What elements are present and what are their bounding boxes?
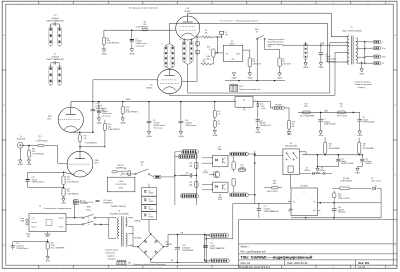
svg-text:ЧУЛ-4: ЧУЛ-4 <box>119 188 123 190</box>
svg-text:1.2к: 1.2к <box>67 179 70 181</box>
svg-text:к корпусу: к корпусу <box>358 87 365 89</box>
svg-text:Нейтр.: Нейтр. <box>59 226 64 229</box>
svg-text:GBU406: GBU406 <box>166 244 172 246</box>
svg-text:GNDЗ: GNDЗ <box>45 261 50 263</box>
svg-text:R6: R6 <box>107 38 109 40</box>
svg-text:C21: C21 <box>210 243 213 245</box>
svg-text:Радиатор источника тока: Радиатор источника тока <box>239 89 260 91</box>
svg-text:*1.5Вт MPR5012: *1.5Вт MPR5012 <box>67 181 79 183</box>
svg-text:3: 3 <box>95 215 96 217</box>
svg-text:*1.5Вт MPR24TЗ: *1.5Вт MPR24TЗ <box>107 42 120 44</box>
svg-text:12В: 12В <box>180 232 184 234</box>
svg-text:5к1: 5к1 <box>292 124 295 126</box>
svg-text:~220В: ~220В <box>20 221 25 223</box>
svg-text:1N4148: 1N4148 <box>319 170 324 172</box>
svg-text:C18: C18 <box>338 207 341 209</box>
svg-text:синяя: синяя <box>261 108 265 110</box>
svg-text:*500В Vishay/ВС: *500В Vishay/ВС <box>363 122 376 124</box>
svg-text:Q1: Q1 <box>204 170 206 172</box>
svg-text:8: 8 <box>304 192 305 194</box>
svg-text:КР142ЕН: КР142ЕН <box>275 105 281 107</box>
svg-text:File: LastChanges.sch: File: LastChanges.sch <box>241 250 267 254</box>
svg-text:Вход RCA: Вход RCA <box>17 137 26 140</box>
svg-text:11: 11 <box>367 267 369 269</box>
svg-text:Title: OddWatt — модифицирован: Title: OddWatt — модифицированный <box>241 255 313 259</box>
svg-text:4.3Вт КСОН: 4.3Вт КСОН <box>282 63 290 65</box>
svg-text:Date: 2019-03-30: Date: 2019-03-30 <box>287 261 308 265</box>
svg-text:5: 5 <box>229 156 230 158</box>
svg-text:КК2: КК2 <box>128 263 131 265</box>
svg-text:GNDA: GNDA <box>247 76 253 79</box>
svg-text:2N5401: 2N5401 <box>203 172 208 174</box>
svg-text:CP1: CP1 <box>189 163 192 165</box>
svg-text:SSB PP PANASONIC: SSB PP PANASONIC <box>46 20 65 23</box>
svg-text:10: 10 <box>332 267 334 269</box>
svg-text:T1: T1 <box>350 26 352 28</box>
svg-text:LED с выключ.: LED с выключ. <box>371 181 382 183</box>
svg-text:630В МУ SOLEN: 630В МУ SOLEN <box>341 163 354 165</box>
svg-text:R21: R21 <box>39 136 42 138</box>
svg-text:240В: 240В <box>126 99 131 101</box>
svg-text:ТКД MPR5012: ТКД MPR5012 <box>116 168 126 170</box>
svg-text:8: 8 <box>264 3 265 5</box>
svg-text:35В КМУ 50,16: 35В КМУ 50,16 <box>260 125 271 127</box>
svg-text:C2: C2 <box>54 15 57 17</box>
svg-text:Neutral: Neutral <box>32 226 38 229</box>
svg-text:C1: C1 <box>54 54 57 56</box>
svg-text:2: 2 <box>211 188 212 190</box>
svg-text:2.2к: 2.2к <box>218 114 221 116</box>
svg-text:ВХ: ВХ <box>226 53 228 55</box>
svg-text:0.25Вт LY КСОН: 0.25Вт LY КСОН <box>338 198 349 200</box>
svg-text:GNDN: GNDN <box>355 172 361 174</box>
svg-text:Sheet: /: Sheet: / <box>241 244 250 248</box>
svg-text:GNDN: GNDN <box>318 135 324 137</box>
svg-text:320В: 320В <box>324 110 329 112</box>
svg-text:V1A: V1A <box>95 159 99 162</box>
svg-text:Cross Z-cap: Cross Z-cap <box>153 126 162 129</box>
svg-text:*Элементы времени: *Элементы времени <box>355 81 371 83</box>
svg-text:9: 9 <box>298 3 299 5</box>
svg-text:1к: 1к <box>179 39 181 41</box>
svg-text:C19: C19 <box>16 243 19 245</box>
svg-text:V3: V3 <box>186 8 189 10</box>
svg-text:R10: R10 <box>203 60 206 62</box>
svg-text:ЗЩ: ЗЩ <box>27 236 30 238</box>
svg-text:C12: C12 <box>365 159 368 161</box>
svg-text:R25: R25 <box>67 189 70 191</box>
svg-text:R24: R24 <box>67 177 70 179</box>
svg-text:Корпус: Корпус <box>26 234 31 236</box>
svg-text:R27 10к: R27 10к <box>80 200 86 202</box>
svg-text:Вся проводка высокого напряжен: Вся проводка высокого напряжения <box>129 7 158 9</box>
svg-text:1к1: 1к1 <box>329 146 332 148</box>
svg-text:UF5407: UF5407 <box>149 209 154 211</box>
svg-text:D2: D2 <box>306 168 308 170</box>
svg-text:SW3: SW3 <box>87 207 91 209</box>
svg-text:*16В Elna Silmic II: *16В Elna Silmic II <box>32 182 46 184</box>
svg-text:UF5407: UF5407 <box>149 216 154 218</box>
svg-text:Rev: 001: Rev: 001 <box>359 261 370 265</box>
svg-text:9: 9 <box>129 232 130 234</box>
svg-text:1: 1 <box>22 3 23 5</box>
svg-text:D6: D6 <box>149 191 151 193</box>
svg-text:R19: R19 <box>84 136 87 138</box>
svg-text:R22: R22 <box>32 149 35 151</box>
svg-text:Сеть: Сеть <box>32 218 36 220</box>
svg-text:D9: D9 <box>149 214 151 216</box>
svg-text:UF5407: UF5407 <box>149 201 154 203</box>
svg-text:D3: D3 <box>321 168 323 170</box>
svg-text:2: 2 <box>115 237 116 239</box>
svg-text:L7: L7 <box>120 175 122 177</box>
svg-text:GNDA: GNDA <box>18 163 23 166</box>
svg-text:0.25Вт ВС(МЛТ): 0.25Вт ВС(МЛТ) <box>340 181 352 183</box>
svg-text:B: B <box>394 105 396 107</box>
svg-text:S2: S2 <box>256 32 258 34</box>
svg-text:РЕГ: РЕГ <box>232 59 235 61</box>
svg-text:J4: J4 <box>39 206 41 208</box>
svg-text:ЧС06: ЧС06 <box>218 199 222 201</box>
svg-text:Power: Power <box>86 209 91 212</box>
svg-text:2: 2 <box>211 162 212 164</box>
svg-text:GNDN: GNDN <box>357 135 363 137</box>
svg-text:Выход: Выход <box>59 218 64 220</box>
svg-text:R23: R23 <box>363 143 366 145</box>
svg-text:АД: АД <box>314 209 316 212</box>
svg-text:*500В Vishay/ВС: *500В Vishay/ВС <box>324 124 337 126</box>
svg-text:GNDA: GNDA <box>27 163 32 166</box>
svg-text:10: 10 <box>332 3 334 5</box>
svg-text:470с: 470с <box>268 46 272 48</box>
svg-text:Ground: Ground <box>32 221 37 224</box>
svg-text:R26: R26 <box>273 181 276 183</box>
svg-text:C8: C8 <box>363 117 365 119</box>
svg-text:J1: J1 <box>225 32 227 34</box>
svg-text:7: 7 <box>229 267 230 269</box>
svg-text:100: 100 <box>205 33 208 35</box>
svg-text:C11: C11 <box>341 159 344 161</box>
svg-text:3: 3 <box>90 267 91 269</box>
svg-text:D: D <box>3 245 5 247</box>
svg-text:6П36С: 6П36С <box>146 87 153 89</box>
svg-text:R16: R16 <box>292 121 295 123</box>
svg-text:GNDA: GNDA <box>147 135 153 138</box>
svg-text:10: 10 <box>129 244 131 246</box>
svg-text:2: 2 <box>68 105 69 107</box>
svg-text:SSB PP PANASONIC: SSB PP PANASONIC <box>46 58 65 61</box>
svg-text:10к: 10к <box>282 61 285 63</box>
svg-text:C14: C14 <box>32 177 35 179</box>
svg-text:6: 6 <box>129 225 130 227</box>
svg-text:1к: 1к <box>209 49 211 51</box>
svg-text:220к: 220к <box>338 196 342 198</box>
svg-text:C2, C3, C5, C7 — плёнка высоко: C2, C3, C5, C7 — плёнка высокого качеств… <box>220 20 260 22</box>
svg-text:L101 ППГ КПИ: L101 ППГ КПИ <box>116 184 128 186</box>
svg-text:C7: C7 <box>324 119 326 121</box>
svg-text:1.2М: 1.2М <box>51 245 55 247</box>
svg-text:R30 4.7к: R30 4.7к <box>118 165 125 167</box>
svg-text:UF5407: UF5407 <box>149 193 154 195</box>
svg-text:Радиатор на боковой стенке (Не: Радиатор на боковой стенке (Небольшой) <box>134 263 167 266</box>
svg-text:СП5-2: СП5-2 <box>206 58 211 60</box>
svg-text:R7: R7 <box>218 121 220 123</box>
svg-text:ВХ: ВХ <box>293 201 295 203</box>
svg-text:100к: 100к <box>273 183 277 185</box>
svg-text:16В НИКОНИК: 16В НИКОНИК <box>182 250 193 252</box>
svg-text:470к: 470к <box>108 127 112 129</box>
svg-text:0В: 0В <box>171 260 173 262</box>
svg-text:GNDA: GNDA <box>129 52 135 55</box>
svg-text:C13: C13 <box>260 120 263 122</box>
svg-text:C: C <box>3 175 5 177</box>
svg-text:4: 4 <box>174 28 175 30</box>
svg-text:GNDA: GNDA <box>303 66 309 69</box>
svg-text:1: 1 <box>211 156 212 158</box>
svg-text:8Ом: 8Ом <box>382 57 385 59</box>
svg-text:*Элементы крепления: *Элементы крепления <box>355 84 373 86</box>
svg-text:ВЫХ: ВЫХ <box>237 53 240 55</box>
svg-text:D: D <box>394 245 396 247</box>
svg-text:6SL7: 6SL7 <box>47 118 51 120</box>
svg-text:4: 4 <box>281 152 282 154</box>
svg-text:4.7мГн: 4.7мГн <box>118 181 123 183</box>
svg-text:1к1: 1к1 <box>363 146 366 148</box>
svg-text:GNDN: GNDN <box>315 172 321 174</box>
svg-text:6: 6 <box>281 159 282 161</box>
svg-text:D7: D7 <box>149 199 151 201</box>
svg-text:275В МКР Epcos: 275В МКР Epcos <box>16 248 28 250</box>
svg-text:317: 317 <box>243 100 246 102</box>
svg-text:5: 5 <box>160 3 161 5</box>
svg-text:GNDA: GNDA <box>97 121 103 124</box>
svg-text:C20: C20 <box>182 245 185 247</box>
svg-text:Id: 1/1: Id: 1/1 <box>359 266 367 269</box>
svg-text:10к: 10к <box>253 61 256 63</box>
svg-text:Cross Z-cap: Cross Z-cap <box>102 116 111 118</box>
svg-text:LED: LED <box>261 106 265 108</box>
svg-text:5: 5 <box>160 267 161 269</box>
svg-text:KiCad E.D.A. kicad (5.0.2)-1: KiCad E.D.A. kicad (5.0.2)-1 <box>239 266 271 269</box>
svg-text:ВО: ВО <box>314 201 317 203</box>
svg-text:4N35: 4N35 <box>218 149 222 151</box>
svg-text:1: 1 <box>115 216 116 218</box>
svg-text:GNDA: GNDA <box>277 76 283 79</box>
svg-text:SW2: SW2 <box>140 162 144 164</box>
svg-text:CP3: CP3 <box>240 165 243 167</box>
svg-text:GNDA: GNDA <box>101 53 107 56</box>
svg-text:4: 4 <box>125 267 126 269</box>
svg-text:соединить: соединить <box>107 256 115 258</box>
svg-text:6: 6 <box>194 267 195 269</box>
svg-text:CP2: CP2 <box>189 182 192 184</box>
svg-text:V2: V2 <box>150 85 153 87</box>
svg-text:1Вт LY КОА/SPEER: 1Вт LY КОА/SPEER <box>300 114 315 117</box>
svg-text:1к: 1к <box>161 44 163 46</box>
svg-text:4: 4 <box>125 3 126 5</box>
svg-text:*500В КУ: *500В КУ <box>365 163 373 165</box>
svg-text:470к: 470к <box>32 151 36 153</box>
svg-text:0.68мкФ: 0.68мкФ <box>52 55 60 58</box>
svg-text:К сети: К сети <box>20 218 25 220</box>
svg-text:A: A <box>394 34 396 37</box>
svg-text:*1.5Вт MPR5012: *1.5Вт MPR5012 <box>67 194 79 196</box>
svg-text:R31: R31 <box>51 243 54 245</box>
svg-text:R4: R4 <box>218 111 220 113</box>
svg-text:*1.5Вт MPR5012: *1.5Вт MPR5012 <box>108 129 120 131</box>
svg-text:T2: T2 <box>118 211 120 213</box>
svg-text:U5 LM431: U5 LM431 <box>300 186 308 188</box>
svg-text:KK1: KK1 <box>239 86 242 88</box>
svg-text:C3: C3 <box>135 38 137 40</box>
svg-text:Cross Z-cap: Cross Z-cap <box>96 109 105 112</box>
svg-text:12: 12 <box>388 3 390 5</box>
svg-text:*3к: *3к <box>340 106 343 108</box>
svg-text:D4: D4 <box>371 178 373 180</box>
svg-text:4Ом: 4Ом <box>382 48 385 50</box>
svg-text:GNDA: GNDA <box>232 76 238 79</box>
svg-text:C: C <box>394 175 396 177</box>
svg-text:R8: R8 <box>253 59 255 61</box>
svg-text:GNDA: GNDA <box>212 134 218 137</box>
svg-text:K1: K1 <box>290 143 292 145</box>
svg-text:1к: 1к <box>39 138 41 140</box>
svg-text:9: 9 <box>298 267 299 269</box>
svg-text:220к: 220к <box>304 106 308 108</box>
svg-text:220: 220 <box>143 24 146 26</box>
svg-text:SW1: SW1 <box>255 29 259 31</box>
svg-text:*обязательно: *обязательно <box>105 253 116 255</box>
svg-text:GNDN: GNDN <box>359 73 365 75</box>
svg-text:*630В Jantzen: *630В Jantzen <box>185 124 196 127</box>
svg-text:5: 5 <box>129 216 130 218</box>
svg-text:*2кВ МРЗ 5кВ ВГД: *2кВ МРЗ 5кВ ВГД <box>110 206 126 208</box>
svg-text:R17 680: R17 680 <box>343 178 349 180</box>
svg-text:C23: C23 <box>185 173 188 175</box>
svg-text:6П36С: 6П36С <box>184 11 191 13</box>
svg-text:*1.5Вт MPR24TЗ: *1.5Вт MPR24TЗ <box>126 112 138 114</box>
svg-text:220к: 220к <box>107 40 111 42</box>
svg-text:*1.5Вт MPR5012: *1.5Вт MPR5012 <box>32 153 44 155</box>
svg-text:*Звук ВМГТОЛ-2Ц(25В): *Звук ВМГТОЛ-2Ц(25В) <box>110 214 129 216</box>
svg-text:J2: J2 <box>382 63 384 65</box>
svg-text:U4: U4 <box>219 194 221 196</box>
svg-text:Size: A4: Size: A4 <box>241 261 251 265</box>
svg-text:6SL7: 6SL7 <box>95 163 99 165</box>
svg-text:S2: S2 <box>141 164 143 166</box>
svg-text:275В МКР X2: 275В МКР X2 <box>103 203 113 205</box>
svg-text:1.2к: 1.2к <box>84 138 87 140</box>
svg-text:23.5В AC: 23.5В AC <box>134 236 142 239</box>
svg-text:350В AC: 350В AC <box>134 220 142 223</box>
svg-text:11: 11 <box>367 3 369 5</box>
svg-text:R24: R24 <box>338 193 341 195</box>
svg-text:GNDA: GNDA <box>178 135 184 138</box>
svg-text:1N4148: 1N4148 <box>304 170 309 172</box>
svg-text:1: 1 <box>211 183 212 185</box>
svg-text:Сетевой фильтр с предохранител: Сетевой фильтр с предохранителем <box>44 207 73 210</box>
svg-text:0.68мкФ: 0.68мкФ <box>52 17 60 20</box>
svg-text:470: 470 <box>218 124 221 126</box>
svg-text:2: 2 <box>56 3 57 5</box>
svg-text:D1: D1 <box>261 104 263 106</box>
svg-text:1Вт LY КСОН: 1Вт LY КСОН <box>337 115 348 117</box>
svg-text:4: 4 <box>229 162 230 164</box>
svg-text:GNDA: GNDA <box>120 122 126 125</box>
svg-text:0: 0 <box>382 42 383 44</box>
svg-text:6: 6 <box>194 3 195 5</box>
svg-text:C22 0.1мкФ: C22 0.1мкФ <box>103 199 112 202</box>
svg-text:220к: 220к <box>126 109 130 111</box>
svg-text:4.3Вт КСОН: 4.3Вт КСОН <box>253 63 261 65</box>
svg-text:D5: D5 <box>166 242 168 244</box>
svg-text:R20: R20 <box>329 143 332 145</box>
svg-text:GNDN: GNDN <box>287 134 293 136</box>
svg-text:0.5Вт: 0.5Вт <box>206 56 210 58</box>
svg-text:GNDA: GNDA <box>61 201 66 204</box>
svg-text:3: 3 <box>265 37 266 39</box>
svg-text:1Вт: 1Вт <box>292 126 295 128</box>
svg-text:*Обмотки экрана: *Обмотки экрана <box>105 250 118 252</box>
svg-text:7: 7 <box>229 3 230 5</box>
svg-text:GNDA: GNDA <box>255 131 261 134</box>
svg-text:4.3Вт LY КСОН: 4.3Вт LY КСОН <box>267 191 278 193</box>
svg-text:ТР2: ТР2 <box>225 34 228 36</box>
svg-text:12: 12 <box>388 267 390 269</box>
svg-text:R9: R9 <box>282 59 284 61</box>
svg-text:*1.5Вт MPR5012: *1.5Вт MPR5012 <box>85 143 97 145</box>
svg-text:3: 3 <box>90 3 91 5</box>
svg-text:C17: C17 <box>264 206 267 208</box>
svg-text:2: 2 <box>56 267 57 269</box>
svg-text:Edcor CXPP25-MS-8K: Edcor CXPP25-MS-8K <box>342 30 362 33</box>
svg-text:Silver Z-cap: Silver Z-cap <box>326 60 335 63</box>
svg-text:1: 1 <box>22 267 23 269</box>
svg-text:16В Vishay: 16В Vishay <box>338 212 346 214</box>
svg-text:с корпусом: с корпусом <box>107 259 116 261</box>
svg-text:*1.5Вт MPR5012: *1.5Вт MPR5012 <box>35 141 47 143</box>
svg-text:D8: D8 <box>149 207 151 209</box>
svg-text:1: 1 <box>245 109 246 111</box>
svg-text:GNDA: GNDA <box>319 66 325 69</box>
svg-text:4N35: 4N35 <box>218 197 222 199</box>
svg-text:B: B <box>3 105 5 107</box>
svg-text:A: A <box>3 34 5 37</box>
svg-text:U3: U3 <box>218 147 220 149</box>
svg-text:1.2к: 1.2к <box>67 191 70 193</box>
svg-text:5: 5 <box>68 149 69 151</box>
svg-text:R18: R18 <box>108 124 111 126</box>
